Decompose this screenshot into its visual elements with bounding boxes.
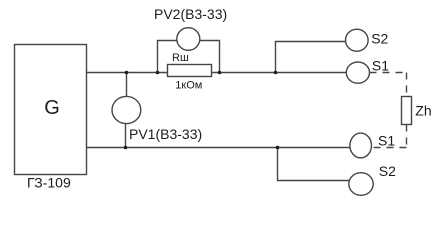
terminal S2 top [346, 29, 369, 51]
terminal S1 bottom [350, 133, 372, 158]
junction node top wire / PV2 left [156, 71, 160, 75]
wire PV1 vertical leads [126, 73, 127, 149]
terminal S2 bottom [349, 173, 373, 196]
junction node top wire / PV1 [125, 71, 129, 75]
junction node bottom wire / S2 branch [276, 146, 280, 150]
svg-text:PV1(В3-33): PV1(В3-33) [129, 126, 202, 142]
svg-text:S2: S2 [379, 163, 396, 179]
wire PV2 parallel branch [158, 41, 220, 74]
svg-text:S1: S1 [372, 58, 389, 74]
dashed wire Zh to S1 bottom [372, 147, 407, 149]
svg-text:Zh: Zh [415, 102, 431, 118]
dashed wire Zh bottom lead [406, 125, 408, 148]
svg-text:Rш: Rш [172, 52, 189, 64]
dashed wire Zh top lead [406, 73, 408, 97]
dashed wire S1 top to Zh [370, 72, 407, 74]
svg-text:PV2(В3-33): PV2(В3-33) [154, 6, 227, 22]
voltmeter PV1 circle [112, 96, 141, 123]
junction node top wire / PV2 right [218, 71, 222, 75]
wire bottom S2 branch [278, 148, 351, 181]
svg-text:S1: S1 [378, 132, 395, 148]
svg-text:S2: S2 [371, 30, 388, 46]
terminal S1 top [346, 62, 369, 83]
wire top bus from G to S1 terminal [86, 72, 347, 74]
generator G box (ГЗ-109) [15, 45, 87, 175]
svg-text:G: G [44, 97, 60, 119]
resistor Rш [168, 65, 212, 77]
svg-text:ГЗ-109: ГЗ-109 [27, 174, 71, 190]
voltmeter PV2 circle [177, 28, 200, 51]
load Zh box [402, 97, 412, 125]
svg-text:1кОм: 1кОм [175, 80, 202, 92]
wire top S2 branch [276, 42, 347, 74]
junction node bottom wire / PV1 [124, 146, 128, 150]
wire bottom bus from G to S1 terminal [86, 147, 351, 149]
junction node top wire / S2 branch [274, 71, 278, 75]
